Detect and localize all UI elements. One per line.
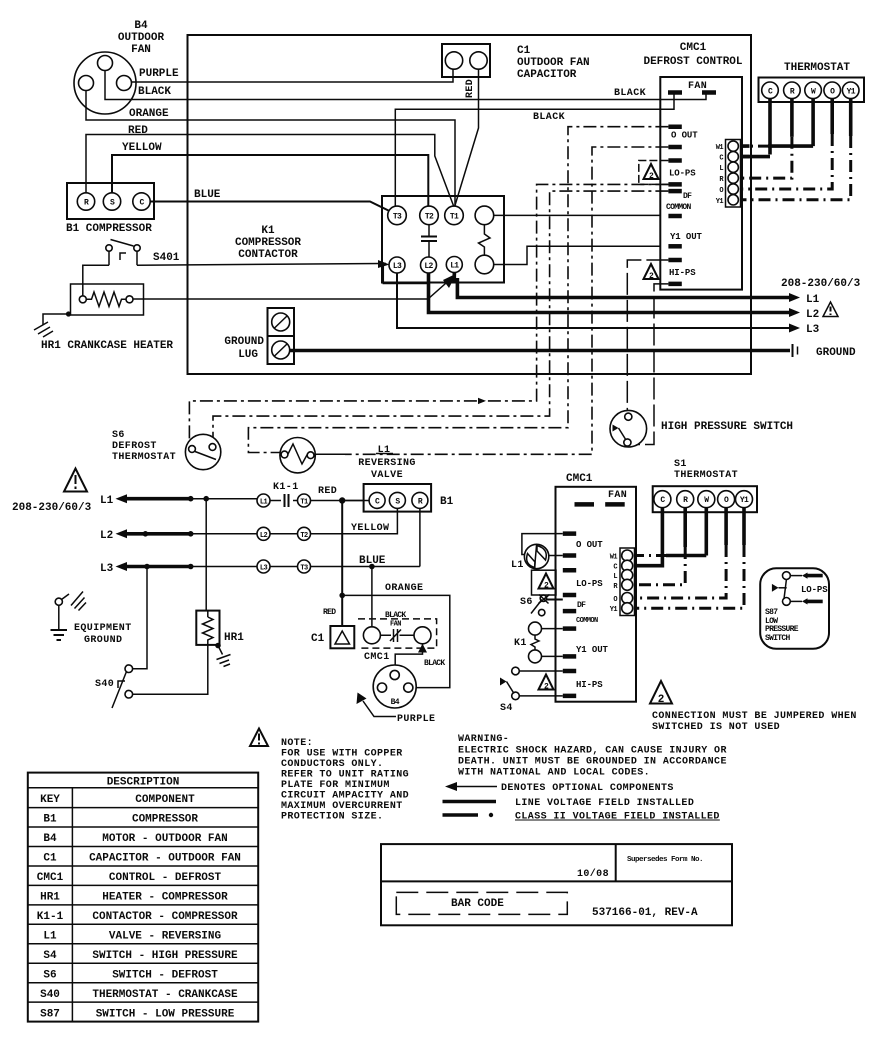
svg-text:C1: C1 <box>43 853 57 865</box>
svg-text:Y1 OUT: Y1 OUT <box>670 232 703 242</box>
svg-text:LUG: LUG <box>238 349 258 361</box>
class II wire: DF bar to S6 right contact <box>213 191 668 440</box>
svg-text:CONTROL - DEFROST: CONTROL - DEFROST <box>109 872 222 884</box>
bar code dashed box <box>396 892 567 914</box>
thermostat wire C to strip C <box>740 99 770 157</box>
labels 208-230/60/3 L1 L2 L3 <box>781 278 861 336</box>
svg-text:SWITCHED IS NOT USED: SWITCHED IS NOT USED <box>652 722 780 733</box>
table rows <box>37 794 241 1021</box>
wire ORANGE: fan left terminal down then right to T1 <box>86 91 455 207</box>
svg-text:2: 2 <box>658 694 665 706</box>
wire S40 top up to L3 row <box>133 567 147 669</box>
wire contactor coil bottom to Y1 OUT bar <box>494 246 661 264</box>
svg-text:WARNING-: WARNING- <box>458 734 509 745</box>
svg-text:VALVE: VALVE <box>371 470 403 481</box>
svg-text:B1: B1 <box>440 496 454 508</box>
thermostat S1 box (lower) <box>653 486 757 512</box>
svg-text:PRESSURE: PRESSURE <box>765 625 799 634</box>
note triangle 1 <box>250 729 268 747</box>
svg-text:GROUND: GROUND <box>84 635 122 646</box>
svg-text:RED: RED <box>465 79 476 98</box>
wire S401 right to L3 with arrow (optional) <box>137 264 386 266</box>
svg-text:L1: L1 <box>100 495 114 507</box>
svg-text:CONNECTION MUST BE JUMPERED WH: CONNECTION MUST BE JUMPERED WHEN <box>652 711 857 722</box>
DF terminal bar <box>668 189 681 194</box>
HI-PS terminal bars (lower) <box>563 671 576 696</box>
wire YELLOW: B1 S terminal up and right, down to T2 <box>112 155 428 207</box>
label C1 OUTDOOR FAN CAPACITOR <box>517 45 590 81</box>
svg-text:NOTE:: NOTE: <box>281 738 313 749</box>
svg-text:W1: W1 <box>610 554 618 562</box>
wire HI-PS lower bar to high pressure switch bottom <box>631 284 668 445</box>
svg-text:HIGH PRESSURE SWITCH: HIGH PRESSURE SWITCH <box>661 421 793 433</box>
svg-text:SWITCH - DEFROST: SWITCH - DEFROST <box>112 970 218 982</box>
svg-text:LINE VOLTAGE FIELD INSTALLED: LINE VOLTAGE FIELD INSTALLED <box>515 798 694 809</box>
thermostat wire W to strip W1 <box>811 99 815 147</box>
svg-text:PROTECTION SIZE.: PROTECTION SIZE. <box>281 812 383 823</box>
defrost thermostat S6 (middle) <box>185 434 220 469</box>
ground lug <box>268 308 295 364</box>
LO-PS jumper wire (lower) <box>532 570 557 595</box>
svg-text:DEATH. UNIT MUST BE GROUNDED I: DEATH. UNIT MUST BE GROUNDED IN ACCORDAN… <box>458 757 727 768</box>
reversing valve coil box B1 (lower) <box>364 484 432 512</box>
svg-text:S4: S4 <box>43 950 57 962</box>
O OUT terminal bars <box>668 127 681 147</box>
label S6 DEFROST THERMOSTAT <box>112 430 176 463</box>
svg-text:CMC1: CMC1 <box>364 652 390 663</box>
svg-text:S6: S6 <box>43 970 56 982</box>
svg-text:THERMOSTAT: THERMOSTAT <box>784 62 850 74</box>
thermostat S1 wire W to strip W1 <box>704 508 708 556</box>
warning triangle 1 at L2 <box>823 302 838 317</box>
strip stub wires <box>740 146 750 157</box>
reversing valve solenoid L1 (middle) <box>280 438 315 473</box>
class II wire: O OUT top bar left and down to reversing valve left <box>248 127 668 453</box>
svg-text:Supersedes Form No.: Supersedes Form No. <box>627 856 703 864</box>
svg-text:L1: L1 <box>511 560 524 571</box>
thermostat S1 wire R to strip R (class II) <box>683 508 687 547</box>
wire L3 to field L3 arrow <box>397 273 795 328</box>
svg-text:S4: S4 <box>500 703 513 714</box>
class II wire: O OUT lower bar left and down to reversing valve right <box>345 147 668 454</box>
svg-text:YELLOW: YELLOW <box>122 142 162 154</box>
svg-text:L3: L3 <box>806 324 820 336</box>
wire BLUE: B1 C terminal right, diagonal to T3 <box>150 202 390 212</box>
svg-text:FAN: FAN <box>390 621 401 629</box>
wire red junction down to C1 <box>341 501 343 627</box>
svg-text:LO-PS: LO-PS <box>669 169 696 179</box>
svg-text:THERMOSTAT: THERMOSTAT <box>674 470 738 481</box>
defrost control fan relay CMC1 dashed enclosure <box>358 619 437 648</box>
svg-text:L2: L2 <box>260 532 268 540</box>
title block <box>381 844 732 925</box>
svg-text:B1 COMPRESSOR: B1 COMPRESSOR <box>66 223 152 235</box>
low pressure switch S87 rounded box <box>760 568 829 649</box>
wire L3 feeder row <box>100 562 257 575</box>
thermostat S1 wire Y1 to strip Y1 (class II) <box>742 508 746 545</box>
svg-text:T3: T3 <box>393 212 402 221</box>
contact K1-1 L1/T1 <box>257 494 311 507</box>
svg-text:B4: B4 <box>391 698 400 707</box>
outer unit enclosure box <box>188 35 752 374</box>
svg-text:L2: L2 <box>806 309 819 321</box>
Y1 OUT terminal bar <box>668 244 681 249</box>
warning text block <box>458 734 727 779</box>
svg-text:S40: S40 <box>40 989 60 1001</box>
svg-text:RED: RED <box>128 125 148 137</box>
svg-text:PURPLE: PURPLE <box>139 68 179 80</box>
svg-text:DEFROST: DEFROST <box>112 441 157 452</box>
svg-text:HI-PS: HI-PS <box>669 268 696 278</box>
capacitor C1 (lower) <box>330 626 354 648</box>
svg-text:10/08: 10/08 <box>577 868 609 880</box>
svg-text:L3: L3 <box>100 563 114 575</box>
high pressure switch <box>610 410 647 447</box>
warning triangle 2 at LO-PS <box>644 164 659 181</box>
svg-text:B4: B4 <box>134 20 148 32</box>
svg-text:KEY: KEY <box>40 794 60 806</box>
svg-text:CAPACITOR - OUTDOOR FAN: CAPACITOR - OUTDOOR FAN <box>89 853 241 865</box>
svg-text:CAPACITOR: CAPACITOR <box>517 69 577 81</box>
svg-text:Y1: Y1 <box>716 198 724 206</box>
note text CONNECTION MUST BE JUMPERED <box>652 711 857 733</box>
svg-text:208-230/60/3: 208-230/60/3 <box>781 278 861 290</box>
wire contactor coil top to COMMON bar <box>494 214 661 216</box>
label GROUND LUG <box>224 336 264 361</box>
svg-text:T2: T2 <box>425 212 434 221</box>
contact K1-1 L3/T3 <box>257 560 311 573</box>
svg-text:C: C <box>719 155 723 163</box>
wire T2 to B1 S (yellow) <box>311 506 398 534</box>
svg-text:COMPRESSOR: COMPRESSOR <box>132 814 198 826</box>
svg-text:BAR CODE: BAR CODE <box>451 898 504 910</box>
ground symbol at heater <box>34 311 71 337</box>
svg-text:L1: L1 <box>806 294 820 306</box>
svg-text:FAN: FAN <box>608 490 627 501</box>
heater HR1 crankcase (top) <box>71 284 144 315</box>
wire ORANGE branch to B4 right terminal <box>342 595 450 687</box>
svg-text:Y1: Y1 <box>847 87 856 96</box>
thermostat wire O to strip O (class II) <box>830 99 834 134</box>
switch S40 crankcase thermostat <box>112 665 133 708</box>
svg-text:W1: W1 <box>716 144 724 152</box>
thermostat box (top right) <box>759 78 865 103</box>
wire heater right to L1 (arrow optional component) <box>133 276 454 299</box>
svg-text:S401: S401 <box>153 252 180 264</box>
legend class II voltage <box>443 812 720 823</box>
thermostat S1 wire O to strip O (class II) <box>724 508 728 545</box>
svg-text:K1-1: K1-1 <box>273 482 299 493</box>
svg-text:FOR USE WITH COPPER: FOR USE WITH COPPER <box>281 749 403 760</box>
svg-text:LO-PS: LO-PS <box>576 579 603 589</box>
svg-text:THERMOSTAT - CRANKCASE: THERMOSTAT - CRANKCASE <box>92 989 238 1001</box>
svg-text:GROUND: GROUND <box>816 347 856 359</box>
defrost control CMC1 box (top) <box>660 77 742 290</box>
svg-text:S40: S40 <box>95 679 114 690</box>
wire L1 thick to field L1 arrow <box>454 273 795 298</box>
HI-PS terminal bars <box>668 260 681 284</box>
svg-text:L2: L2 <box>424 262 433 271</box>
wire S401 left to heater left leg <box>83 265 109 295</box>
LO-PS terminal bars (lower) <box>563 570 576 595</box>
svg-text:S87: S87 <box>765 608 778 617</box>
svg-text:COMPONENT: COMPONENT <box>135 794 195 806</box>
svg-text:COMMON: COMMON <box>576 617 598 625</box>
svg-text:SWITCH: SWITCH <box>765 634 791 643</box>
svg-text:VALVE - REVERSING: VALVE - REVERSING <box>109 931 222 943</box>
svg-text:CLASS II VOLTAGE FIELD INSTALL: CLASS II VOLTAGE FIELD INSTALLED <box>515 812 720 823</box>
svg-text:SWITCH - HIGH PRESSURE: SWITCH - HIGH PRESSURE <box>92 950 238 962</box>
wire RED junction into B1 C <box>342 500 369 502</box>
wire HI-PS top bar to high pressure switch top <box>627 260 668 414</box>
legend line voltage <box>443 798 695 809</box>
svg-text:EQUIPMENT: EQUIPMENT <box>74 623 132 634</box>
defrost control CMC1 box (lower) <box>556 487 637 702</box>
svg-text:L1: L1 <box>450 262 459 271</box>
svg-text:PLATE FOR MINIMUM: PLATE FOR MINIMUM <box>281 780 390 791</box>
wire RED: B1 R terminal up and right, down to T1 <box>86 135 454 208</box>
svg-text:L2: L2 <box>100 530 113 542</box>
component description table <box>28 773 258 1022</box>
LO-PS jumper wire with dashed enclosure <box>639 161 669 185</box>
svg-text:DF: DF <box>683 192 692 201</box>
compressor B1 terminal box (top) <box>67 183 154 219</box>
warning triangle 2 at LO-PS (lower) <box>539 574 554 591</box>
wire HR1 bottom to S40 bottom <box>133 645 208 694</box>
wire blue junction down to fan relay left <box>371 567 373 627</box>
LO-PS terminal bars <box>668 161 681 185</box>
svg-text:PURPLE: PURPLE <box>397 714 435 725</box>
switch S6 (lower) <box>531 595 563 616</box>
svg-text:WITH NATIONAL AND LOCAL CODES.: WITH NATIONAL AND LOCAL CODES. <box>458 768 650 779</box>
svg-text:ORANGE: ORANGE <box>129 108 169 120</box>
svg-text:L1: L1 <box>43 931 57 943</box>
legend optional components arrow <box>445 782 674 794</box>
svg-text:ORANGE: ORANGE <box>385 583 423 594</box>
svg-text:O OUT: O OUT <box>671 131 698 141</box>
class II wire: LO-PS lower bar to S6 left contact <box>189 184 668 443</box>
field power entry (lower left) warning triangle 1 <box>64 469 87 492</box>
O OUT terminal bars (lower) <box>563 534 576 556</box>
capacitor symbol between T2 and L2 <box>421 225 437 257</box>
svg-text:BLACK: BLACK <box>533 112 565 123</box>
labels W1 C L R O Y1 <box>716 144 725 206</box>
svg-text:S6: S6 <box>520 597 533 608</box>
svg-text:L1: L1 <box>378 445 391 456</box>
relay coil L1 (lower, reversing valve solenoid) <box>524 544 548 568</box>
svg-text:O: O <box>719 187 723 195</box>
wire RED: C1 right terminal down, diagonal to T1 <box>455 69 479 207</box>
wire L1 feeder row <box>100 494 257 507</box>
svg-text:L3: L3 <box>260 565 268 573</box>
svg-text:HEATER - COMPRESSOR: HEATER - COMPRESSOR <box>102 892 228 904</box>
label CMC1 DEFROST CONTROL <box>643 42 742 68</box>
contactor terminals T3 T2 T1 <box>388 206 464 225</box>
svg-text:Y1: Y1 <box>610 606 618 614</box>
DF terminal bar (lower) <box>563 609 576 614</box>
chassis ground at HR1 <box>217 646 231 667</box>
svg-text:REVERSING: REVERSING <box>358 458 416 469</box>
svg-text:BLUE: BLUE <box>359 555 386 567</box>
motor B4 outdoor fan (top) <box>74 52 136 114</box>
relay coil K1 (lower) <box>529 622 542 663</box>
svg-text:L1: L1 <box>260 499 268 507</box>
svg-text:T1: T1 <box>300 499 308 507</box>
svg-text:T1: T1 <box>450 212 459 221</box>
labels W1 C L R O Y1 (lower strip) <box>610 554 619 615</box>
warning triangle 2 at HI-PS (lower) <box>539 675 554 692</box>
svg-text:GROUND: GROUND <box>224 336 264 348</box>
svg-text:BLACK: BLACK <box>424 659 445 668</box>
svg-text:208-230/60/3: 208-230/60/3 <box>12 502 92 514</box>
wire T3 to blue junction <box>311 566 420 568</box>
svg-text:RED: RED <box>323 608 336 617</box>
svg-text:S6: S6 <box>112 430 125 441</box>
wire L2 feeder row <box>100 529 257 542</box>
label PURPLE with pointer arrow <box>357 693 436 726</box>
svg-text:YELLOW: YELLOW <box>351 523 389 534</box>
svg-text:C: C <box>613 564 617 572</box>
label K1 COMPRESSOR CONTACTOR <box>235 225 301 261</box>
equipment ground symbol <box>51 592 87 641</box>
svg-text:537166-01, REV-A: 537166-01, REV-A <box>592 907 698 919</box>
wire BLACK: fan top terminal to CMC1 FAN right bar <box>105 71 706 100</box>
svg-text:BLACK: BLACK <box>385 611 406 620</box>
svg-text:HR1: HR1 <box>40 892 60 904</box>
svg-text:SWITCH - LOW PRESSURE: SWITCH - LOW PRESSURE <box>96 1009 235 1021</box>
ground termination symbol and label <box>793 344 857 359</box>
svg-text:L: L <box>719 165 723 173</box>
svg-text:CONTACTOR: CONTACTOR <box>238 249 298 261</box>
svg-text:L: L <box>613 573 617 581</box>
warning triangle 2 at HI-PS <box>644 264 659 281</box>
wire ground lug to GROUND symbol right <box>290 349 790 353</box>
wire T1 to B1 with RED junction <box>311 500 364 502</box>
svg-text:CONTACTOR - COMPRESSOR: CONTACTOR - COMPRESSOR <box>92 911 238 923</box>
svg-text:Y1 OUT: Y1 OUT <box>576 645 609 655</box>
svg-text:FAN: FAN <box>131 44 151 56</box>
warning triangle 2 note <box>650 681 672 706</box>
svg-text:THERMOSTAT: THERMOSTAT <box>112 452 176 463</box>
contactor K1 box <box>382 196 504 283</box>
svg-text:B1: B1 <box>43 814 57 826</box>
svg-text:OUTDOOR: OUTDOOR <box>118 32 165 44</box>
svg-text:O: O <box>613 596 617 604</box>
svg-text:MOTOR - OUTDOOR FAN: MOTOR - OUTDOOR FAN <box>102 833 227 845</box>
svg-text:BLACK: BLACK <box>138 86 171 98</box>
svg-text:K1: K1 <box>514 638 527 649</box>
wire L1 junction down to HR1 <box>205 499 207 611</box>
svg-text:B4: B4 <box>43 833 57 845</box>
label EQUIPMENT GROUND <box>74 623 132 646</box>
svg-text:O OUT: O OUT <box>576 540 603 550</box>
svg-text:Y1: Y1 <box>740 496 749 505</box>
wire K1 coil to COMMON and Y1 OUT bars <box>542 629 563 657</box>
svg-text:T3: T3 <box>300 565 308 573</box>
label B4 OUTDOOR FAN <box>118 20 165 56</box>
wire L1 coil to O OUT bars <box>522 534 563 556</box>
svg-text:BLACK: BLACK <box>614 88 646 99</box>
svg-text:HR1 CRANKCASE HEATER: HR1 CRANKCASE HEATER <box>41 340 173 352</box>
switch S401 crankcase thermostat <box>106 240 140 266</box>
terminal strip on CMC1 (top) W1 C L R O Y1 <box>726 140 741 208</box>
FAN terminal bars (lower) <box>575 502 625 507</box>
thermostat S1 wire C to strip C <box>635 508 663 566</box>
svg-text:REFER TO UNIT RATING: REFER TO UNIT RATING <box>281 770 409 781</box>
svg-text:LO-PS: LO-PS <box>801 585 828 595</box>
svg-text:CMC1: CMC1 <box>37 872 64 884</box>
svg-text:COMPRESSOR: COMPRESSOR <box>235 237 301 249</box>
svg-text:C1: C1 <box>517 45 531 57</box>
svg-text:HI-PS: HI-PS <box>576 680 603 690</box>
svg-text:MAXIMUM OVERCURRENT: MAXIMUM OVERCURRENT <box>281 801 403 812</box>
S87 switch symbol <box>772 572 823 606</box>
svg-text:COMMON: COMMON <box>666 203 692 212</box>
wire branch to L2 leg <box>383 264 427 284</box>
fan relay contacts <box>363 627 431 644</box>
FAN terminal bars <box>668 90 716 95</box>
wire L2 thick to field L2 arrow <box>429 273 796 313</box>
svg-text:BLUE: BLUE <box>194 189 221 201</box>
svg-text:K1: K1 <box>261 225 275 237</box>
svg-text:T2: T2 <box>300 532 308 540</box>
svg-text:CIRCUIT AMPACITY AND: CIRCUIT AMPACITY AND <box>281 791 409 802</box>
svg-text:CMC1: CMC1 <box>680 42 707 54</box>
label L1 REVERSING VALVE <box>358 445 416 481</box>
svg-text:RED: RED <box>318 486 337 497</box>
thermostat wire R to strip R (class II) <box>790 99 794 137</box>
svg-text:C1: C1 <box>311 633 325 645</box>
svg-text:DENOTES OPTIONAL COMPONENTS: DENOTES OPTIONAL COMPONENTS <box>501 783 674 794</box>
switch S4 high pressure (lower) <box>500 667 563 700</box>
wire blue: B1 R down to T3 row <box>419 508 421 566</box>
terminal strip on CMC1 (lower) W1 C L R O Y1 <box>620 548 635 616</box>
svg-text:K1-1: K1-1 <box>37 911 64 923</box>
svg-text:S87: S87 <box>40 1009 60 1021</box>
svg-text:CMC1: CMC1 <box>566 473 593 485</box>
heater HR1 (lower) <box>196 611 219 645</box>
svg-text:OUTDOOR FAN: OUTDOOR FAN <box>517 57 590 69</box>
wire relay right contact down to B4 top (black) with arrow <box>395 644 422 671</box>
svg-text:CONDUCTORS ONLY.: CONDUCTORS ONLY. <box>281 759 383 770</box>
svg-text:DESCRIPTION: DESCRIPTION <box>107 777 180 789</box>
label S87 LOW PRESSURE SWITCH <box>765 608 799 643</box>
thermostat wire Y1 to strip Y1 (class II) <box>849 99 853 136</box>
wire PURPLE: fan right terminal to C1 left terminal <box>132 69 454 82</box>
svg-text:HR1: HR1 <box>224 632 244 644</box>
wire BLACK: T3 up to CMC1 FAN left bar <box>395 94 674 206</box>
svg-text:S1: S1 <box>674 459 687 470</box>
contact symbol right column of contactor <box>475 206 494 274</box>
contact K1-1 L2/T2 <box>257 527 311 540</box>
arrow on class II row (optional) <box>478 398 486 404</box>
COMMON terminal bar (lower) <box>563 626 576 631</box>
svg-text:ELECTRIC SHOCK HAZARD, CAN CAU: ELECTRIC SHOCK HAZARD, CAN CAUSE INJURY … <box>458 746 727 757</box>
motor B4 (lower) <box>373 665 416 708</box>
Y1 OUT terminal bar (lower) <box>563 654 576 659</box>
svg-text:L3: L3 <box>393 262 402 271</box>
note text block <box>281 738 409 823</box>
svg-text:DEFROST CONTROL: DEFROST CONTROL <box>643 56 742 68</box>
COMMON terminal bar <box>668 214 681 219</box>
svg-text:DF: DF <box>577 601 586 610</box>
contactor terminals L3 L2 L1 <box>389 257 462 274</box>
capacitor C1 outdoor fan (top box) <box>442 44 490 77</box>
label S1 THERMOSTAT <box>674 459 738 481</box>
